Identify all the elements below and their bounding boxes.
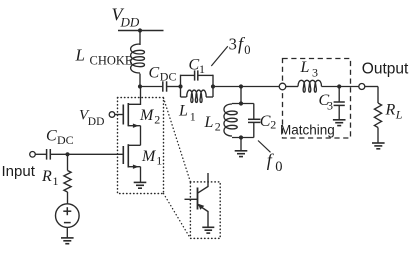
svg-text:3: 3 [312,65,318,79]
svg-text:0: 0 [275,159,282,175]
wire node to output port [339,86,359,88]
svg-text:L: L [204,114,214,131]
node dot resonator left [178,84,182,88]
node A dot [138,84,142,88]
svg-text:1: 1 [53,174,59,188]
svg-text:C: C [149,65,160,82]
svg-text:L: L [300,59,310,76]
wire gate port to M2 [115,114,124,116]
svg-text:C: C [260,113,271,130]
wire node A to C_DC [140,86,163,88]
resonator top rail with capacitor C1 [181,74,195,76]
VDD supply bar [118,30,164,32]
capacitor C3 [338,87,340,103]
svg-text:2: 2 [270,118,276,132]
wire down to tank [240,87,242,104]
svg-text:L: L [75,46,85,65]
svg-text:M: M [141,148,157,165]
svg-text:3: 3 [229,34,237,53]
source ground [61,237,74,239]
resistor R1 [64,171,71,193]
svg-text:1: 1 [156,154,162,168]
svg-text:Output: Output [362,61,409,78]
M1 ground [134,181,147,183]
inductor L2 [224,104,237,136]
callout dotted line lower [164,194,191,239]
inset transistor base wire [185,198,198,200]
tank top rail [232,103,254,105]
capacitor C_DC (input) [46,149,48,160]
node dot resonator right [211,84,215,88]
capacitor C2 [253,104,255,120]
wire gate line to M1 [50,153,123,155]
node dot above tank [239,84,243,88]
inset dotted box [190,182,220,239]
svg-text:0: 0 [244,43,250,57]
wire VDD bar to choke [139,31,141,46]
capacitor C_DC (top) [162,81,164,91]
wire RL to ground [377,128,379,143]
inset transistor emitter [198,205,209,228]
svg-text:2: 2 [215,120,221,134]
resonator bottom rail right stub [206,96,213,98]
transistor M1 [122,146,124,164]
inset transistor base bar [197,188,199,210]
wire M2 source to M1 drain [140,126,142,146]
input port circle [30,152,36,158]
tank ground [235,150,248,152]
dotted box around M1 M2 [118,98,164,194]
wire tank node to matching port [241,86,279,88]
svg-text:DD: DD [88,116,105,128]
inset ground [202,226,214,228]
M2 gate port circle [109,112,115,118]
tank top node dot [239,101,243,105]
svg-text:R: R [385,102,396,119]
svg-text:DC: DC [57,133,74,147]
svg-text:1: 1 [190,110,196,124]
svg-text:3: 3 [327,99,333,113]
wire source to ground [66,227,68,237]
node dot on VDD bar [138,28,142,32]
wire input port to C_DC [35,153,46,155]
inset transistor emitter arrow [198,204,204,210]
svg-text:R: R [41,168,52,185]
pointer line 3f0 [211,46,228,66]
voltage source circle [56,204,80,228]
matching network dashed box [283,59,351,139]
node dot after L3 [337,84,341,88]
svg-text:DD: DD [120,15,140,30]
resonator left vertical wire [180,75,182,97]
output port circle [359,84,365,90]
wire R1 to source [67,192,69,204]
resonator right vertical wire [212,75,214,97]
wire choke to node A [139,74,141,87]
svg-text:C: C [46,128,57,145]
svg-text:Input: Input [2,163,36,180]
inductor L_CHOKE [131,44,145,73]
voltage source plus [63,210,71,212]
svg-text:Matching: Matching [280,122,335,137]
resistor RL [374,103,381,128]
voltage source minus [64,222,71,224]
pointer line f0 [258,141,271,153]
svg-text:2: 2 [154,113,160,127]
tank ground stem [240,138,242,151]
wire port to L3 [286,86,298,88]
svg-text:DC: DC [160,70,177,84]
C3 ground [333,119,346,121]
inset transistor collector [198,173,209,193]
wire output port to RL [365,86,378,88]
wire M1 source to ground [140,167,142,183]
tank bottom rail [232,137,254,139]
matching input port circle [279,83,286,90]
svg-text:L: L [395,108,403,122]
callout dotted line upper [164,98,191,182]
tank bottom node dot [239,135,243,139]
RL ground [372,142,385,144]
wire resonator to tank node [213,86,241,88]
svg-text:1: 1 [199,62,205,76]
wire C_DC to resonator [167,86,181,88]
svg-text:CHOKE: CHOKE [90,54,133,68]
svg-text:L: L [178,103,188,120]
wire L3 to node [322,86,340,88]
inductor L3 [298,80,322,92]
resonator bottom rail left stub [181,96,187,98]
wire node to R1 [67,154,69,170]
svg-text:C: C [189,57,200,74]
input node dot [65,152,69,156]
svg-text:M: M [139,107,155,124]
transistor M2 [122,105,124,125]
inductor L1 [187,90,207,102]
